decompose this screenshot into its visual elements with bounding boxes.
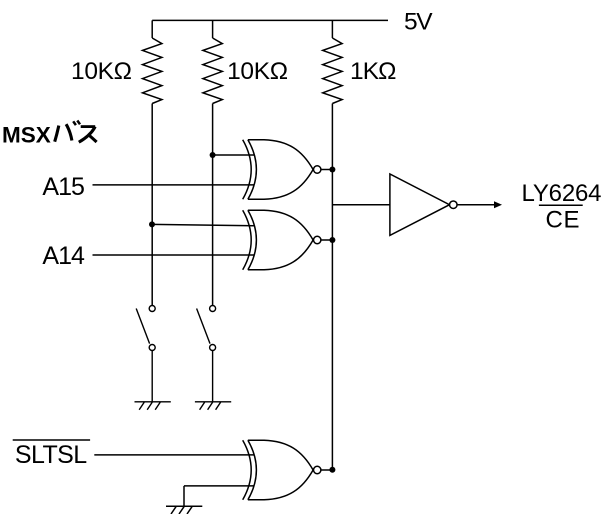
svg-text:MSX: MSX	[2, 123, 51, 148]
svg-text:1KΩ: 1KΩ	[350, 58, 397, 85]
svg-text:LY6264: LY6264	[522, 180, 602, 207]
svg-text:A14: A14	[42, 242, 85, 270]
svg-text:10KΩ: 10KΩ	[227, 58, 288, 85]
svg-text:10KΩ: 10KΩ	[71, 58, 132, 85]
svg-text:A15: A15	[42, 173, 85, 201]
svg-text:5V: 5V	[404, 8, 433, 35]
svg-text:SLTSL: SLTSL	[15, 441, 87, 469]
svg-text:CE: CE	[546, 207, 580, 234]
